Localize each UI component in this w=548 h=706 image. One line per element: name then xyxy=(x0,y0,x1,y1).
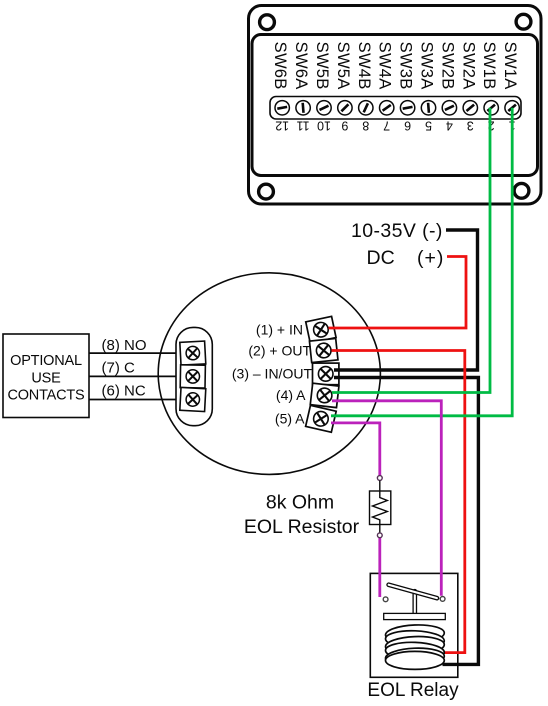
wire black terminal 3 to relay coil xyxy=(334,378,478,665)
svg-text:7: 7 xyxy=(383,119,390,133)
panel mounting screw BL xyxy=(259,184,274,199)
terminal screw 2 xyxy=(484,101,498,115)
svg-text:SW2A: SW2A xyxy=(459,42,478,91)
svg-text:SW5A: SW5A xyxy=(334,42,353,91)
detector terminal box 4 xyxy=(310,383,339,407)
terminal screw 9 xyxy=(338,101,352,115)
svg-text:(1) + IN: (1) + IN xyxy=(256,322,303,338)
svg-text:6: 6 xyxy=(404,119,411,133)
svg-text:3: 3 xyxy=(467,119,474,133)
terminal screw 10 xyxy=(317,101,331,115)
svg-text:(2) + OUT: (2) + OUT xyxy=(248,342,311,358)
svg-text:SW2B: SW2B xyxy=(438,42,457,90)
terminal screw 5 xyxy=(421,101,435,115)
svg-text:SW3B: SW3B xyxy=(397,42,416,90)
wire NC xyxy=(89,399,177,401)
terminal strip xyxy=(270,97,521,120)
svg-text:(+): (+) xyxy=(417,247,444,269)
relay armature bar xyxy=(387,583,439,601)
svg-text:SW3A: SW3A xyxy=(418,42,437,91)
svg-text:10: 10 xyxy=(317,119,331,133)
svg-text:(3) – IN/OUT: (3) – IN/OUT xyxy=(232,366,313,382)
svg-text:SW4A: SW4A xyxy=(376,42,395,91)
wire green terminal 4 to panel screw 2 xyxy=(332,108,490,393)
terminal screw 3 xyxy=(463,101,477,115)
wire NO xyxy=(89,352,177,354)
svg-text:SW1A: SW1A xyxy=(501,42,520,91)
svg-text:12: 12 xyxy=(275,119,289,133)
wire black negative supply to terminal 3 xyxy=(334,230,478,370)
svg-text:SW6B: SW6B xyxy=(271,42,290,90)
relay coil xyxy=(385,624,444,670)
svg-text:5: 5 xyxy=(425,119,432,133)
svg-text:DC: DC xyxy=(367,247,395,269)
wire purple terminal 4 to relay contact xyxy=(332,401,441,596)
resistor R1 8k Ohm EOL xyxy=(370,481,391,534)
detector terminal box 3 xyxy=(313,363,339,385)
switch panel outer body xyxy=(249,6,542,205)
svg-text:(7) C: (7) C xyxy=(102,360,136,377)
contact screw 6 xyxy=(180,387,206,411)
relay box xyxy=(370,573,458,677)
panel mounting screw BR xyxy=(514,183,529,198)
svg-text:EOL Resistor: EOL Resistor xyxy=(244,516,360,538)
terminal screw 8 xyxy=(359,101,373,115)
relay plate xyxy=(384,613,446,619)
panel mounting screw TR xyxy=(516,14,531,29)
svg-text:9: 9 xyxy=(341,119,348,133)
relay contact left xyxy=(383,597,388,602)
wire green terminal 5 to panel screw 1 xyxy=(331,108,512,416)
svg-text:SW1B: SW1B xyxy=(480,42,499,90)
terminal screw 4 xyxy=(442,101,456,115)
wire red positive supply to terminal 1 xyxy=(329,257,467,329)
detector terminal box 1 xyxy=(306,316,336,343)
svg-text:(6) NC: (6) NC xyxy=(102,383,146,400)
terminal screw 1 xyxy=(505,101,519,115)
svg-text:USE: USE xyxy=(31,371,61,387)
switch panel inner face xyxy=(252,35,538,176)
svg-text:SW6A: SW6A xyxy=(292,42,311,91)
contact screw 7 xyxy=(180,365,205,388)
terminal screw 6 xyxy=(400,101,414,115)
wire red terminal 2 to relay coil xyxy=(332,351,465,653)
terminal screw 12 xyxy=(275,101,289,115)
svg-text:(4) A: (4) A xyxy=(276,387,306,403)
svg-text:8k Ohm: 8k Ohm xyxy=(266,492,334,514)
contact block pill xyxy=(176,327,212,425)
detector body circle xyxy=(158,273,380,475)
terminal screw 11 xyxy=(296,101,310,115)
resistor top node xyxy=(377,476,382,481)
svg-text:OPTIONAL: OPTIONAL xyxy=(10,353,82,369)
label OPTIONAL USE CONTACTS xyxy=(7,353,84,404)
terminal screw 7 xyxy=(380,101,394,115)
OPTIONAL USE CONTACTS box xyxy=(3,334,89,418)
svg-text:CONTACTS: CONTACTS xyxy=(7,388,84,404)
relay contact right xyxy=(440,597,445,602)
svg-text:SW5B: SW5B xyxy=(313,42,332,90)
svg-text:(5) A: (5) A xyxy=(275,411,305,427)
svg-text:10-35V (-): 10-35V (-) xyxy=(351,220,443,242)
svg-text:SW4B: SW4B xyxy=(355,42,374,90)
svg-text:(8) NO: (8) NO xyxy=(102,337,147,354)
svg-text:4: 4 xyxy=(446,119,453,133)
svg-text:EOL Relay: EOL Relay xyxy=(367,680,459,701)
resistor bottom node xyxy=(377,533,382,538)
wire C xyxy=(89,375,177,377)
svg-text:11: 11 xyxy=(297,119,310,133)
wire purple resistor to relay contact xyxy=(378,538,381,597)
relay pivot stem xyxy=(413,590,416,616)
detector terminal box 5 xyxy=(306,405,337,432)
wire purple terminal 5 to resistor xyxy=(331,423,380,476)
svg-text:8: 8 xyxy=(362,119,369,133)
panel mounting screw TL xyxy=(260,15,275,30)
detector terminal box 2 xyxy=(309,338,338,362)
contact screw 8 xyxy=(180,341,206,365)
